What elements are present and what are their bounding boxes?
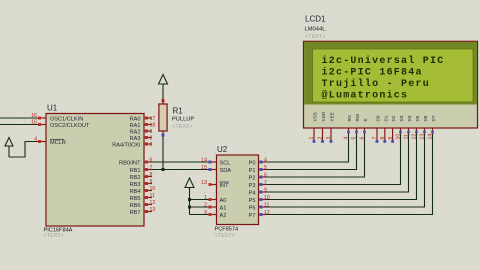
svg-text:13: 13 bbox=[201, 180, 207, 186]
svg-text:i2c-Universal PIC: i2c-Universal PIC bbox=[322, 55, 445, 67]
svg-text:<TEXT>: <TEXT> bbox=[44, 233, 64, 239]
svg-text:5: 5 bbox=[264, 165, 267, 171]
svg-text:RA4/T0CKI: RA4/T0CKI bbox=[112, 142, 141, 148]
svg-text:13: 13 bbox=[420, 134, 426, 140]
svg-text:18: 18 bbox=[150, 123, 156, 129]
svg-text:9: 9 bbox=[150, 179, 153, 185]
svg-text:12: 12 bbox=[264, 210, 270, 216]
svg-text:7: 7 bbox=[264, 180, 267, 186]
wire P1 to LCD RW bbox=[267, 133, 357, 170]
LCD pin 3 (VEE) bbox=[326, 128, 332, 143]
U2 right pin P7 (12) bbox=[249, 210, 270, 219]
LCD pin label RS bbox=[347, 115, 352, 121]
U1 right pin RB1 (7) bbox=[130, 165, 153, 174]
svg-text:P7: P7 bbox=[249, 213, 256, 219]
svg-text:RA2: RA2 bbox=[130, 129, 141, 135]
LCD pin label E bbox=[363, 118, 368, 121]
svg-text:7: 7 bbox=[150, 165, 153, 171]
svg-text:VSS: VSS bbox=[313, 112, 318, 121]
wire A1 bbox=[190, 206, 209, 208]
svg-text:OSC2/CLKOUT: OSC2/CLKOUT bbox=[50, 123, 90, 129]
svg-text:7: 7 bbox=[372, 137, 378, 140]
svg-text:RA1: RA1 bbox=[130, 123, 141, 129]
U2 pin SCL (14) bbox=[201, 158, 230, 167]
svg-text:D5: D5 bbox=[415, 115, 420, 121]
U1 right pin RA0 (17) bbox=[130, 116, 156, 122]
svg-text:OSC1/CLKIN: OSC1/CLKIN bbox=[50, 117, 83, 123]
svg-text:1: 1 bbox=[309, 137, 315, 140]
svg-text:SDA: SDA bbox=[220, 168, 232, 174]
svg-text:@Lumatronics: @Lumatronics bbox=[322, 90, 409, 102]
LCD pin 1 (VSS) bbox=[309, 128, 315, 143]
junction A0 bbox=[188, 198, 191, 201]
svg-text:RB6: RB6 bbox=[130, 203, 141, 209]
svg-text:U2: U2 bbox=[217, 145, 228, 154]
svg-text:3: 3 bbox=[204, 210, 207, 216]
LCD pin label D1 bbox=[383, 115, 388, 121]
power symbol VCC (R1 top) bbox=[159, 75, 168, 101]
U2 pin A1 (2) bbox=[204, 203, 226, 212]
svg-text:RA0: RA0 bbox=[130, 116, 141, 122]
U1 right pin RB0/INT (6) bbox=[119, 158, 152, 167]
LCD LCD1 LM044L bbox=[304, 15, 478, 129]
U1 right pin RB3 (9) bbox=[130, 179, 153, 188]
svg-text:2: 2 bbox=[318, 137, 324, 140]
svg-text:12: 12 bbox=[412, 134, 418, 140]
LCD pin label RW bbox=[355, 113, 360, 121]
U2 right pin P0 (4) bbox=[249, 158, 267, 167]
LCD pin label D2 bbox=[391, 115, 396, 121]
junction A1 bbox=[188, 206, 191, 209]
svg-text:PCF8574: PCF8574 bbox=[215, 226, 239, 232]
U2 pin SDA (15) bbox=[201, 165, 231, 174]
svg-text:PULLUP: PULLUP bbox=[172, 117, 194, 123]
svg-text:P0: P0 bbox=[249, 160, 256, 166]
LCD pin 12 (D5) bbox=[412, 128, 418, 140]
IC U2 PCF8574 bbox=[215, 145, 259, 239]
svg-text:2: 2 bbox=[150, 136, 153, 142]
svg-text:4: 4 bbox=[34, 137, 37, 143]
svg-text:RW: RW bbox=[355, 113, 360, 121]
svg-text:P3: P3 bbox=[249, 183, 256, 189]
svg-text:RB2: RB2 bbox=[130, 175, 141, 181]
svg-text:i2c-PIC 16F84a: i2c-PIC 16F84a bbox=[322, 67, 423, 79]
resistor R1 bbox=[159, 99, 194, 137]
svg-text:15: 15 bbox=[31, 120, 37, 126]
LCD pin 5 (RW) bbox=[352, 128, 358, 140]
svg-text:D6: D6 bbox=[423, 115, 428, 121]
svg-text:1: 1 bbox=[204, 195, 207, 201]
LCD pin label VDD bbox=[321, 111, 326, 121]
svg-text:14: 14 bbox=[428, 134, 434, 140]
U1 pin OSC2/CLKOUT (15) bbox=[31, 120, 90, 130]
svg-text:R1: R1 bbox=[173, 107, 184, 116]
svg-text:15: 15 bbox=[201, 165, 207, 171]
LCD pin 14 (D7) bbox=[428, 128, 434, 140]
U1 right pin RB2 (8) bbox=[130, 172, 153, 181]
U1 pin MCLR (4) bbox=[34, 137, 66, 147]
svg-text:RS: RS bbox=[347, 115, 352, 121]
svg-text:10: 10 bbox=[264, 195, 270, 201]
svg-text:9: 9 bbox=[264, 188, 267, 194]
U1 pin OSC1/CLKIN (16) bbox=[31, 113, 83, 123]
svg-text:<TEXT>: <TEXT> bbox=[215, 233, 235, 239]
LCD pin 9 (D2) bbox=[388, 128, 394, 143]
svg-text:3: 3 bbox=[150, 142, 153, 148]
wire P5 to LCD D5 bbox=[267, 133, 417, 200]
svg-text:D1: D1 bbox=[383, 115, 388, 121]
svg-text:13: 13 bbox=[150, 207, 156, 213]
wire OSC2 to left edge bbox=[0, 124, 39, 126]
svg-text:5: 5 bbox=[352, 137, 358, 140]
svg-text:11: 11 bbox=[404, 134, 410, 139]
svg-text:RB5: RB5 bbox=[130, 196, 141, 202]
svg-text:4: 4 bbox=[264, 158, 267, 164]
LCD text line 1 bbox=[322, 55, 445, 67]
svg-text:D4: D4 bbox=[407, 115, 412, 121]
svg-text:14: 14 bbox=[201, 158, 207, 164]
svg-text:10: 10 bbox=[150, 186, 156, 192]
svg-text:D7: D7 bbox=[431, 115, 436, 121]
junction R1/SDA bbox=[162, 168, 165, 171]
U1 right pin RA1 (18) bbox=[130, 123, 156, 129]
svg-text:VEE: VEE bbox=[330, 112, 335, 121]
svg-text:9: 9 bbox=[388, 137, 394, 140]
svg-text:P2: P2 bbox=[249, 175, 256, 181]
svg-text:RA3: RA3 bbox=[130, 136, 141, 142]
LCD pin label D6 bbox=[423, 115, 428, 121]
svg-text:6: 6 bbox=[360, 137, 366, 140]
wire A2 bbox=[190, 214, 209, 216]
LCD text line 3 bbox=[322, 78, 430, 90]
U2 right pin P1 (5) bbox=[249, 165, 267, 174]
svg-text:8: 8 bbox=[380, 137, 386, 140]
LCD pin 13 (D6) bbox=[420, 128, 426, 140]
svg-text:8: 8 bbox=[150, 172, 153, 178]
wire P6 to LCD D6 bbox=[267, 133, 425, 207]
wire P2 to LCD E bbox=[267, 133, 365, 177]
svg-text:11: 11 bbox=[150, 193, 155, 199]
U2 pin A0 (1) bbox=[204, 195, 226, 204]
svg-text:2: 2 bbox=[204, 203, 207, 209]
svg-text:A0: A0 bbox=[220, 198, 227, 204]
svg-text:<TEXT>: <TEXT> bbox=[172, 124, 192, 130]
LCD text line 4 bbox=[322, 90, 409, 102]
wire RB0-SCL bbox=[152, 161, 209, 163]
wire RB1-SDA bbox=[152, 169, 209, 171]
svg-text:U1: U1 bbox=[47, 104, 58, 113]
LCD pin label D7 bbox=[431, 115, 436, 121]
IC U1 PIC16F84A bbox=[44, 104, 145, 240]
wire P3 to LCD D3 bbox=[267, 133, 401, 185]
svg-text:INT: INT bbox=[220, 183, 230, 189]
power symbol VCC (address pins) bbox=[185, 178, 194, 215]
U1 right pin RB5 (11) bbox=[130, 193, 155, 202]
svg-text:P6: P6 bbox=[249, 205, 256, 211]
svg-text:RB3: RB3 bbox=[130, 182, 141, 188]
svg-text:RB1: RB1 bbox=[130, 168, 141, 174]
svg-text:P4: P4 bbox=[249, 190, 256, 196]
U1 right pin RA4/T0CKI (3) bbox=[112, 142, 152, 148]
svg-text:RB7: RB7 bbox=[130, 210, 141, 216]
LCD pin label D3 bbox=[399, 115, 404, 121]
wire P4 to LCD D4 bbox=[267, 133, 409, 192]
svg-text:VDD: VDD bbox=[321, 111, 326, 121]
U1 right pin RB4 (10) bbox=[130, 186, 156, 195]
svg-text:SCL: SCL bbox=[220, 160, 231, 166]
svg-text:11: 11 bbox=[264, 203, 269, 209]
svg-text:<TEXT>: <TEXT> bbox=[305, 34, 325, 40]
U1 right pin RB7 (13) bbox=[130, 207, 156, 216]
svg-text:P5: P5 bbox=[249, 198, 256, 204]
U2 pin INT (13) bbox=[201, 180, 229, 189]
U2 right pin P5 (10) bbox=[249, 195, 270, 204]
svg-text:A1: A1 bbox=[220, 205, 227, 211]
svg-text:Trujillo - Peru: Trujillo - Peru bbox=[322, 78, 430, 90]
LCD pin label D4 bbox=[407, 115, 412, 121]
U1 right pin RB6 (12) bbox=[130, 200, 156, 209]
wire P0 to LCD RS bbox=[267, 133, 349, 162]
power symbol VCC (MCLR pullup) bbox=[5, 138, 13, 158]
U2 right pin P6 (11) bbox=[249, 203, 270, 212]
LCD pin 10 (D3) bbox=[396, 128, 402, 140]
svg-text:RB4: RB4 bbox=[130, 189, 141, 195]
U2 right pin P4 (9) bbox=[249, 188, 267, 197]
U2 pin A2 (3) bbox=[204, 210, 226, 219]
wire MCLR bbox=[9, 142, 39, 158]
svg-text:MCLR: MCLR bbox=[50, 140, 66, 146]
U2 right pin P2 (6) bbox=[249, 173, 267, 182]
LCD pin label VSS bbox=[313, 112, 318, 121]
LCD pin label VEE bbox=[330, 112, 335, 121]
svg-text:D0: D0 bbox=[376, 115, 381, 121]
svg-text:A2: A2 bbox=[220, 213, 227, 219]
svg-text:16: 16 bbox=[31, 113, 37, 119]
LCD pin 2 (VDD) bbox=[318, 128, 324, 143]
LCD pin 8 (D1) bbox=[380, 128, 386, 143]
svg-text:12: 12 bbox=[150, 200, 156, 206]
LCD pin 4 (RS) bbox=[344, 128, 350, 140]
wire OSC1 to left edge bbox=[0, 117, 39, 119]
svg-text:3: 3 bbox=[326, 137, 332, 140]
U2 right pin P3 (7) bbox=[249, 180, 267, 189]
svg-text:4: 4 bbox=[344, 137, 350, 140]
wire A0 bbox=[190, 199, 209, 201]
U1 right pin RA3 (2) bbox=[130, 136, 153, 142]
svg-text:1: 1 bbox=[150, 129, 153, 135]
svg-text:6: 6 bbox=[150, 158, 153, 164]
LCD text line 2 bbox=[322, 67, 423, 79]
svg-text:LCD1: LCD1 bbox=[305, 15, 326, 24]
LCD pin label D0 bbox=[376, 115, 381, 121]
LCD pin label D5 bbox=[415, 115, 420, 121]
wire R1 to SDA net bbox=[162, 136, 164, 170]
wire P7 to LCD D7 bbox=[267, 133, 433, 215]
svg-text:D3: D3 bbox=[399, 115, 404, 121]
svg-text:LM044L: LM044L bbox=[305, 26, 327, 32]
svg-text:17: 17 bbox=[150, 116, 156, 122]
svg-text:E: E bbox=[363, 118, 368, 121]
LCD pin 6 (E) bbox=[360, 128, 366, 140]
svg-text:D2: D2 bbox=[391, 115, 396, 121]
LCD pin 11 (D4) bbox=[404, 128, 410, 140]
svg-text:6: 6 bbox=[264, 173, 267, 179]
svg-text:P1: P1 bbox=[249, 168, 256, 174]
U1 right pin RA2 (1) bbox=[130, 129, 153, 135]
svg-text:10: 10 bbox=[396, 134, 402, 140]
LCD pin 7 (D0) bbox=[372, 128, 378, 143]
svg-text:RB0/INT: RB0/INT bbox=[119, 160, 141, 166]
